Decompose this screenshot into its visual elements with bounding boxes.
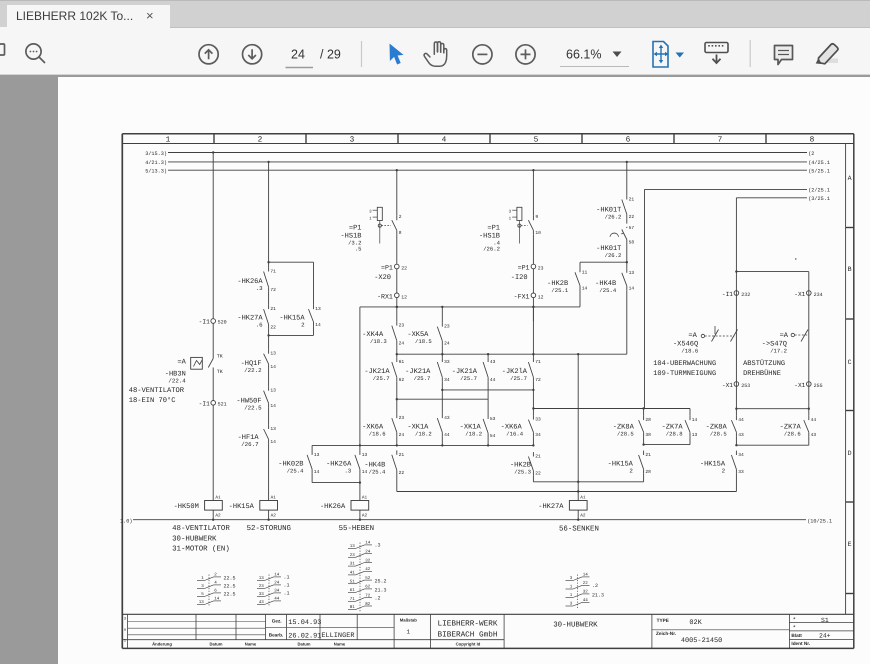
svg-text:58: 58 <box>629 239 635 245</box>
svg-text:2: 2 <box>722 468 726 475</box>
svg-text:4005-21450: 4005-21450 <box>681 637 722 645</box>
svg-text:51: 51 <box>350 579 356 584</box>
svg-text:23: 23 <box>444 324 450 330</box>
svg-text:61: 61 <box>399 359 405 365</box>
svg-text:14: 14 <box>629 286 635 292</box>
svg-text:21: 21 <box>629 197 635 203</box>
svg-text:22: 22 <box>401 265 407 271</box>
svg-text:21: 21 <box>399 452 405 458</box>
svg-text:33: 33 <box>444 359 450 365</box>
svg-text:34: 34 <box>274 589 280 594</box>
svg-text:-X20: -X20 <box>374 274 391 282</box>
svg-text:14: 14 <box>362 469 368 475</box>
svg-text:-I1: -I1 <box>199 400 210 407</box>
svg-text:56-SENKEN: 56-SENKEN <box>559 526 599 534</box>
svg-text:A1: A1 <box>362 496 368 501</box>
svg-text:22: 22 <box>535 471 541 477</box>
svg-text:30-HUBWERK: 30-HUBWERK <box>553 621 598 629</box>
svg-text:LIEBHERR-WERK: LIEBHERR-WERK <box>438 619 498 628</box>
svg-text:A1: A1 <box>271 496 277 501</box>
svg-text:E: E <box>848 541 852 548</box>
svg-text:33: 33 <box>535 417 541 423</box>
svg-text:26.02.91: 26.02.91 <box>288 632 321 640</box>
svg-text:52: 52 <box>365 576 371 581</box>
svg-text:61: 61 <box>350 588 356 593</box>
svg-text:24: 24 <box>399 341 405 347</box>
svg-text:/17.2: /17.2 <box>770 348 787 355</box>
svg-text:ELLINGER: ELLINGER <box>321 632 354 640</box>
svg-text:/25.7: /25.7 <box>510 375 527 382</box>
svg-text:11: 11 <box>582 269 588 275</box>
svg-text:22: 22 <box>270 324 276 330</box>
svg-text:48-VENTILATOR: 48-VENTILATOR <box>129 387 185 395</box>
svg-text:21.3: 21.3 <box>592 593 604 599</box>
svg-text:7: 7 <box>718 136 723 145</box>
svg-text:4: 4 <box>442 136 447 145</box>
svg-text:A2: A2 <box>362 514 368 519</box>
svg-text:Datum: Datum <box>297 642 310 647</box>
svg-text:232: 232 <box>741 292 750 298</box>
svg-text:48-VENTILATOR: 48-VENTILATOR <box>172 525 230 533</box>
svg-text:23: 23 <box>538 265 544 271</box>
svg-text:32: 32 <box>583 590 589 595</box>
svg-text:A1: A1 <box>580 496 586 501</box>
svg-text:/22.4: /22.4 <box>168 377 186 384</box>
svg-text:23: 23 <box>259 584 265 589</box>
svg-text:8: 8 <box>810 136 815 145</box>
svg-text:43: 43 <box>811 432 817 438</box>
svg-text:21.3: 21.3 <box>375 588 387 594</box>
svg-text:62: 62 <box>399 377 405 383</box>
svg-text:-RX1: -RX1 <box>377 293 393 300</box>
svg-text:6: 6 <box>626 136 631 145</box>
svg-text:44: 44 <box>811 417 817 423</box>
svg-text:ABSTÜTZUNG: ABSTÜTZUNG <box>743 359 785 368</box>
svg-text:31: 31 <box>350 562 356 567</box>
svg-text:44: 44 <box>738 417 744 423</box>
svg-text:13: 13 <box>270 351 276 357</box>
svg-text:32: 32 <box>365 558 371 563</box>
svg-text:3: 3 <box>369 210 372 215</box>
svg-text:/25.7: /25.7 <box>414 375 431 382</box>
svg-text:.2: .2 <box>592 583 598 589</box>
svg-text:253: 253 <box>741 383 750 389</box>
svg-text:104-UBERWACHUNG: 104-UBERWACHUNG <box>653 360 716 368</box>
svg-text:22: 22 <box>583 581 589 586</box>
svg-text:/25.4: /25.4 <box>599 287 616 294</box>
svg-text:B: B <box>848 266 852 273</box>
svg-text:A2: A2 <box>580 514 586 519</box>
svg-text:14: 14 <box>692 417 698 423</box>
svg-text:/28.5: /28.5 <box>710 431 727 438</box>
svg-text:24: 24 <box>365 550 371 555</box>
svg-text:-I20: -I20 <box>511 274 528 282</box>
svg-text:81: 81 <box>350 605 356 610</box>
svg-text:/28.5: /28.5 <box>617 431 634 438</box>
svg-text:.3: .3 <box>256 285 263 292</box>
svg-text:21: 21 <box>535 454 541 460</box>
svg-text:4/21.3): 4/21.3) <box>145 160 167 166</box>
svg-text:.3: .3 <box>375 543 381 549</box>
svg-text:.1: .1 <box>284 583 290 589</box>
svg-text:52-STORUNG: 52-STORUNG <box>247 525 291 533</box>
svg-text:(2/25.1: (2/25.1 <box>808 188 830 194</box>
svg-text:/22.2: /22.2 <box>244 367 262 374</box>
svg-text:13: 13 <box>315 306 321 312</box>
svg-text:/25.1: /25.1 <box>551 287 568 294</box>
svg-text:1: 1 <box>369 217 372 222</box>
svg-text:(2: (2 <box>808 151 814 157</box>
svg-text:22.5: 22.5 <box>224 576 236 582</box>
svg-text:55-HEBEN: 55-HEBEN <box>339 525 374 533</box>
svg-text:33: 33 <box>738 469 744 475</box>
svg-text:/28.8: /28.8 <box>666 431 683 438</box>
svg-text:Änderung: Änderung <box>152 642 172 647</box>
svg-text:.6: .6 <box>256 321 263 328</box>
svg-text:23: 23 <box>399 415 405 421</box>
svg-text:/18.6: /18.6 <box>681 348 698 355</box>
svg-text:1: 1 <box>166 136 171 145</box>
svg-text:234: 234 <box>814 292 823 298</box>
svg-text:S1: S1 <box>821 617 829 624</box>
svg-text:/22.5: /22.5 <box>244 404 262 411</box>
svg-text:15.04.93: 15.04.93 <box>288 619 321 627</box>
svg-text:82: 82 <box>365 602 371 607</box>
svg-text:3: 3 <box>509 210 512 215</box>
svg-text:71: 71 <box>350 597 356 602</box>
svg-text:02K: 02K <box>689 619 702 627</box>
svg-text:13: 13 <box>314 452 320 458</box>
svg-text:3: 3 <box>350 136 355 145</box>
svg-text:13: 13 <box>629 270 635 276</box>
svg-text:3/15.3): 3/15.3) <box>145 151 167 157</box>
svg-text:-I1: -I1 <box>722 291 733 298</box>
svg-text:/26.2: /26.2 <box>483 245 500 252</box>
svg-text:=A: =A <box>688 332 697 340</box>
svg-text:28: 28 <box>645 469 651 475</box>
svg-text:1: 1 <box>124 639 127 644</box>
svg-text:-HK26A: -HK26A <box>320 503 346 511</box>
svg-text:.1: .1 <box>284 591 290 597</box>
svg-text:-HK27A: -HK27A <box>538 503 564 511</box>
svg-text:9: 9 <box>535 214 538 220</box>
svg-text:71: 71 <box>535 359 541 365</box>
svg-text:24+: 24+ <box>819 632 831 639</box>
svg-text:3: 3 <box>124 617 127 622</box>
svg-text:Gez.: Gez. <box>272 618 282 623</box>
svg-text:/26.2: /26.2 <box>605 252 622 259</box>
svg-text:.3: .3 <box>344 468 351 475</box>
svg-text:A: A <box>848 175 852 182</box>
svg-text:23: 23 <box>350 553 356 558</box>
svg-text:43: 43 <box>259 600 265 605</box>
svg-text:14: 14 <box>583 573 589 578</box>
svg-text:13: 13 <box>199 600 205 605</box>
svg-text:/18.3: /18.3 <box>370 338 387 345</box>
svg-text:23: 23 <box>399 323 405 329</box>
svg-text:22: 22 <box>399 470 405 476</box>
svg-text:2: 2 <box>629 468 633 475</box>
svg-text:22.5: 22.5 <box>224 584 236 590</box>
svg-text:38: 38 <box>645 432 651 438</box>
svg-text:*: * <box>793 625 797 632</box>
svg-text:/16.4: /16.4 <box>506 431 523 438</box>
svg-text:/25.7: /25.7 <box>373 375 390 382</box>
svg-text:(5/25.1: (5/25.1 <box>808 169 830 175</box>
svg-text:8: 8 <box>399 230 402 236</box>
svg-text:-HK50M: -HK50M <box>174 503 199 511</box>
svg-text:/18.2: /18.2 <box>465 431 482 438</box>
svg-text:43: 43 <box>490 359 496 365</box>
svg-text:12: 12 <box>401 294 407 300</box>
svg-text:/18.2: /18.2 <box>415 431 432 438</box>
svg-text:/25.3: /25.3 <box>514 469 531 476</box>
svg-text:Name: Name <box>245 642 257 647</box>
svg-text:A2: A2 <box>215 514 221 519</box>
svg-text:43: 43 <box>444 415 450 421</box>
svg-text:72: 72 <box>270 287 276 293</box>
svg-text:2: 2 <box>301 321 305 328</box>
svg-text:53: 53 <box>490 416 496 422</box>
svg-text:Blatt: Blatt <box>791 633 802 638</box>
svg-text:(10/25.1: (10/25.1 <box>807 518 832 524</box>
svg-text:13: 13 <box>362 452 368 458</box>
svg-text:/25.4: /25.4 <box>369 469 386 476</box>
svg-text:-I1: -I1 <box>199 319 210 326</box>
svg-text:21: 21 <box>270 306 276 312</box>
svg-text:/26.7: /26.7 <box>241 441 259 448</box>
svg-text:2: 2 <box>258 136 263 145</box>
svg-text:13: 13 <box>270 426 276 432</box>
svg-text:=A: =A <box>780 332 789 340</box>
svg-text:/25.4: /25.4 <box>287 468 304 475</box>
svg-text:72: 72 <box>365 594 371 599</box>
svg-text:BIBERACH GmbH: BIBERACH GmbH <box>438 631 498 640</box>
svg-text:14: 14 <box>274 573 280 578</box>
svg-text:44: 44 <box>490 377 496 383</box>
svg-text:.2: .2 <box>375 595 381 601</box>
svg-text:a: a <box>124 628 127 633</box>
svg-text:Ident Nr.: Ident Nr. <box>791 641 810 646</box>
svg-text:=P1: =P1 <box>349 225 362 233</box>
svg-text:24: 24 <box>399 432 405 438</box>
svg-text:-X1: -X1 <box>794 291 805 298</box>
svg-text:42: 42 <box>365 567 371 572</box>
svg-text:13: 13 <box>270 388 276 394</box>
svg-text:1: 1 <box>509 217 512 222</box>
svg-text:13: 13 <box>692 432 698 438</box>
svg-text:14: 14 <box>315 322 321 328</box>
svg-text:1.0): 1.0) <box>120 518 132 524</box>
svg-text:/18.6: /18.6 <box>369 431 386 438</box>
svg-text:44: 44 <box>444 432 450 438</box>
svg-text:14: 14 <box>314 469 320 475</box>
svg-text:34: 34 <box>535 432 541 438</box>
svg-text:D: D <box>848 450 852 457</box>
svg-text:TK: TK <box>217 369 223 375</box>
svg-text:14: 14 <box>270 364 276 370</box>
svg-text:10: 10 <box>535 230 541 236</box>
svg-text:Name: Name <box>334 642 346 647</box>
svg-text:14: 14 <box>270 403 276 409</box>
svg-text:/26.2: /26.2 <box>605 214 622 221</box>
svg-text:13: 13 <box>350 544 356 549</box>
svg-text:=P1: =P1 <box>381 264 393 271</box>
svg-text:43: 43 <box>738 432 744 438</box>
svg-text:5/13.3): 5/13.3) <box>145 169 167 175</box>
svg-text:25.2: 25.2 <box>375 579 387 585</box>
svg-text:TYPE: TYPE <box>657 618 669 623</box>
svg-text:21: 21 <box>645 452 651 458</box>
svg-text:34: 34 <box>738 452 744 458</box>
svg-text:30-HUBWERK: 30-HUBWERK <box>172 535 217 543</box>
svg-text:*: * <box>793 617 797 624</box>
svg-text:24: 24 <box>444 341 450 347</box>
svg-text:A2: A2 <box>271 514 277 519</box>
svg-text:.5: .5 <box>355 245 362 252</box>
svg-text:TK: TK <box>217 354 223 360</box>
svg-text:62: 62 <box>365 585 371 590</box>
svg-text:=P1: =P1 <box>487 225 500 233</box>
svg-text:109-TURMNEIGUNG: 109-TURMNEIGUNG <box>653 370 716 378</box>
svg-text:=P1: =P1 <box>518 264 530 271</box>
svg-text:-X1: -X1 <box>722 382 733 389</box>
svg-text:/25.7: /25.7 <box>460 375 477 382</box>
svg-text:71: 71 <box>270 269 276 275</box>
svg-text:C: C <box>848 359 852 366</box>
svg-text:14: 14 <box>270 439 276 445</box>
svg-text:/18.5: /18.5 <box>415 338 432 345</box>
svg-text:Bearb.: Bearb. <box>269 632 284 637</box>
svg-text:24: 24 <box>274 581 280 586</box>
svg-text:41: 41 <box>350 571 356 576</box>
svg-text:54: 54 <box>490 433 496 439</box>
svg-text:44: 44 <box>274 597 280 602</box>
svg-text:255: 255 <box>814 383 823 389</box>
svg-text:72: 72 <box>535 377 541 383</box>
svg-text:33: 33 <box>259 592 265 597</box>
svg-text:18-EIN 70°C: 18-EIN 70°C <box>129 397 176 405</box>
svg-text:22: 22 <box>629 214 635 220</box>
svg-text:12: 12 <box>538 294 544 300</box>
svg-text:14: 14 <box>214 597 220 602</box>
svg-text:A1: A1 <box>215 496 221 501</box>
svg-text:Zeich-Nr.: Zeich-Nr. <box>656 631 676 636</box>
svg-text:Copyright Id: Copyright Id <box>456 642 481 647</box>
svg-text:57: 57 <box>629 225 635 231</box>
svg-text:14: 14 <box>582 285 588 291</box>
svg-text:(3/25.1: (3/25.1 <box>808 196 830 202</box>
svg-text:520: 520 <box>218 320 227 326</box>
svg-text:(4/25.1: (4/25.1 <box>808 160 830 166</box>
svg-text:-X1: -X1 <box>794 382 805 389</box>
svg-text:Maßstab: Maßstab <box>400 618 417 623</box>
svg-text:34: 34 <box>444 377 450 383</box>
svg-text:.1: .1 <box>284 575 290 581</box>
svg-text:5: 5 <box>534 136 539 145</box>
svg-text:-FX1: -FX1 <box>514 293 530 300</box>
svg-text:22.5: 22.5 <box>224 592 236 598</box>
svg-text:DREHBÜHNE: DREHBÜHNE <box>743 369 781 378</box>
svg-text:13: 13 <box>259 576 265 581</box>
svg-text:14: 14 <box>365 541 371 546</box>
svg-text:-HK15A: -HK15A <box>229 503 255 511</box>
svg-text:2: 2 <box>399 214 402 220</box>
svg-text:44: 44 <box>583 598 589 603</box>
svg-text:=A: =A <box>177 358 186 366</box>
svg-text:31-MOTOR (EN): 31-MOTOR (EN) <box>172 545 230 554</box>
svg-text:28: 28 <box>645 417 651 423</box>
svg-text:/28.6: /28.6 <box>784 431 801 438</box>
svg-text:Datum: Datum <box>209 642 222 647</box>
svg-text:521: 521 <box>218 401 227 407</box>
svg-text:1: 1 <box>406 628 410 635</box>
